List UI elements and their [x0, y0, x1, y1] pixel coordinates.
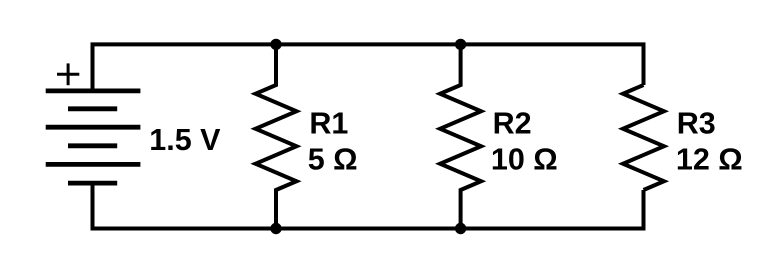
battery V1 plus sign — [57, 63, 79, 85]
svg-text:R3: R3 — [677, 107, 716, 141]
battery V1 plates — [46, 91, 141, 183]
node: bottom junction at R1 — [270, 223, 281, 234]
node: top junction at R1 — [270, 39, 281, 50]
svg-text:1.5 V: 1.5 V — [149, 123, 221, 157]
svg-text:10 Ω: 10 Ω — [491, 143, 558, 177]
svg-text:R2: R2 — [493, 107, 532, 141]
resistor R1 zigzag — [256, 44, 297, 228]
resistor R3 zigzag — [623, 85, 664, 190]
svg-text:R1: R1 — [309, 107, 348, 141]
resistor R2 zigzag — [440, 44, 481, 228]
svg-text:5 Ω: 5 Ω — [308, 143, 358, 177]
node: top junction at R2 — [455, 39, 466, 50]
svg-text:12 Ω: 12 Ω — [676, 143, 743, 177]
wire: top rail from battery to R3 — [93, 44, 644, 91]
node: bottom junction at R2 — [455, 223, 466, 234]
wire: bottom rail from battery to R3 — [93, 183, 644, 228]
